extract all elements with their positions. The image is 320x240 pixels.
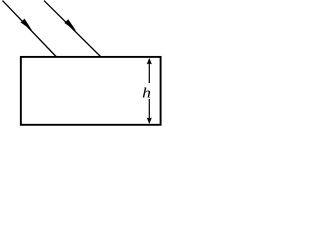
rectangle (block of height h) [21,57,161,125]
arrowhead of ray 2 [64,19,76,31]
wire: incident ray 2 [44,1,101,57]
wire: incident ray 1 [3,1,57,57]
arrowhead of ray 1 [21,19,33,31]
wire: vertical dimension arrow, lower shaft [148,99,150,120]
svg-text:h: h [142,84,151,101]
arrowhead up [147,58,152,65]
wire: vertical dimension arrow, upper shaft [148,62,150,83]
arrowhead down [147,118,152,125]
